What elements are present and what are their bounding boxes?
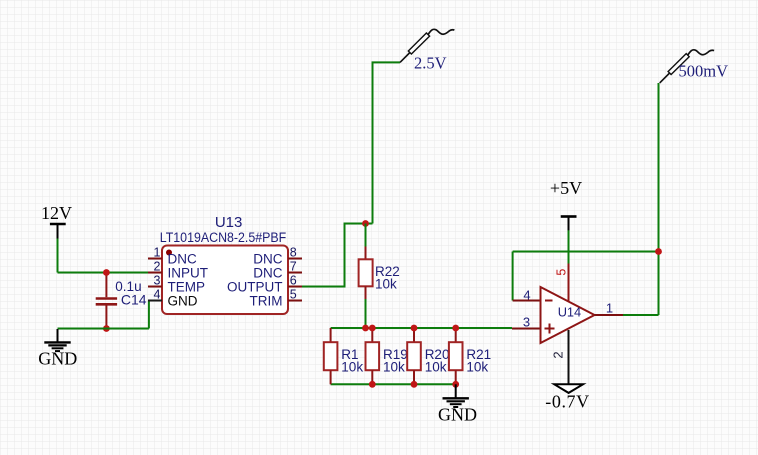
resistor R22 [359, 224, 373, 329]
svg-text:DNC: DNC [253, 265, 282, 280]
svg-text:10k: 10k [466, 360, 488, 375]
svg-text:10k: 10k [341, 360, 363, 375]
svg-text:TEMP: TEMP [168, 279, 206, 294]
op-amp U14 pin 1 stub [595, 314, 624, 316]
U13 pin 2 INPUT [148, 260, 208, 281]
svg-text:1: 1 [154, 246, 161, 260]
svg-text:4: 4 [523, 287, 530, 302]
ground GND left [38, 329, 77, 368]
junction R21 top [452, 325, 459, 332]
svg-text:10k: 10k [425, 360, 447, 375]
svg-text:7: 7 [290, 260, 297, 274]
svg-text:U14: U14 [558, 305, 581, 320]
svg-text:GND: GND [168, 293, 198, 308]
power port +5V [550, 178, 582, 231]
svg-text:DNC: DNC [168, 251, 197, 266]
junction C14 bottom [103, 325, 110, 332]
svg-text:10k: 10k [375, 277, 397, 292]
svg-text:6: 6 [290, 274, 297, 288]
wire output [623, 314, 659, 316]
svg-text:3: 3 [154, 274, 161, 288]
svg-text:OUTPUT: OUTPUT [227, 279, 283, 294]
svg-text:LT1019ACN8-2.5#PBF: LT1019ACN8-2.5#PBF [160, 230, 287, 245]
junction R20 bottom [411, 381, 418, 388]
svg-text:-0.7V: -0.7V [545, 391, 590, 411]
svg-text:+5V: +5V [550, 178, 582, 198]
wire +5V down [568, 230, 570, 263]
wire 12V vertical [57, 238, 59, 273]
wire OUTPUT to feedback riser [302, 224, 373, 287]
svg-text:1: 1 [606, 300, 613, 315]
wire U13 pin4 down [148, 301, 150, 329]
wire 2.5V riser [373, 62, 401, 223]
op-amp U14 pin 3 stub [512, 328, 541, 330]
junction R22 bottom [362, 325, 369, 332]
wire 500mV riser [658, 83, 660, 315]
junction node 2.5V [362, 220, 369, 227]
svg-text:10k: 10k [383, 360, 405, 375]
svg-text:2: 2 [154, 260, 161, 274]
U13 pin 7 DNC [253, 260, 302, 281]
wire bottom bus [331, 383, 456, 385]
capacitor C14 [96, 273, 117, 329]
resistor R19 [366, 328, 380, 384]
op-amp U14 pin 4 stub [513, 300, 541, 302]
svg-text:GND: GND [38, 348, 77, 368]
svg-text:GND: GND [438, 404, 477, 424]
svg-text:INPUT: INPUT [168, 265, 209, 280]
probe 2.5V [400, 29, 454, 62]
svg-text:4: 4 [154, 288, 161, 302]
svg-text:8: 8 [290, 246, 297, 260]
op-amp U14 triangle [541, 287, 595, 343]
power port -0.7V [545, 384, 590, 411]
svg-text:12V: 12V [41, 203, 72, 223]
resistor R21 [449, 328, 463, 384]
op-amp U14 pin 2 lead [568, 330, 570, 384]
U13 body [162, 246, 288, 315]
ground GND right [438, 384, 477, 424]
U13 pin 5 TRIM [250, 288, 303, 309]
svg-text:5: 5 [290, 288, 297, 302]
wire top bus [331, 327, 512, 329]
U13 pin 3 TEMP [148, 274, 205, 295]
svg-text:2: 2 [551, 351, 566, 358]
junction C14 top [103, 269, 110, 276]
U13 pin 4 GND [148, 288, 198, 309]
wire GND left horizontal [58, 328, 149, 330]
svg-text:C14: C14 [121, 291, 147, 307]
U13 pin 6 OUTPUT [227, 274, 302, 295]
svg-text:2.5V: 2.5V [414, 53, 447, 72]
junction R19 bottom [369, 381, 376, 388]
junction feedback tap [655, 248, 662, 255]
junction R19 top [369, 325, 376, 332]
svg-text:500mV: 500mV [679, 62, 729, 81]
wire feedback top [513, 251, 659, 253]
op-amp U14 pin 5 lead [568, 264, 570, 302]
junction R20 top [411, 325, 418, 332]
svg-text:3: 3 [523, 314, 530, 329]
U13 pin 8 DNC [253, 246, 302, 267]
wire feedback left vertical [512, 252, 514, 301]
resistor R20 [407, 328, 421, 384]
resistor R1 [324, 328, 338, 384]
svg-text:TRIM: TRIM [250, 293, 283, 308]
svg-text:5: 5 [555, 269, 569, 276]
wire 12V to C14 and U13 pin2 [58, 272, 149, 274]
power port 12V [41, 203, 72, 239]
junction R21 bottom [452, 381, 459, 388]
U13 pin 1 DNC [148, 246, 197, 267]
svg-text:DNC: DNC [253, 251, 282, 266]
svg-text:U13: U13 [215, 214, 243, 231]
probe 500mV [660, 50, 714, 83]
